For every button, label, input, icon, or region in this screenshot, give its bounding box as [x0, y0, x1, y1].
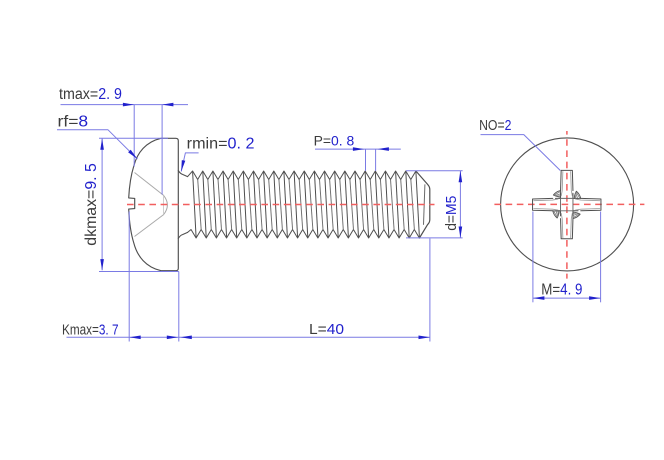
dimension M=4.9 — [532, 212, 534, 303]
screw head outline (side view) — [129, 138, 179, 270]
recess center square — [561, 198, 573, 210]
dimension line Kmax / L — [67, 336, 430, 338]
recess cone upper flank line — [135, 173, 164, 196]
extension line head left (Kmax) — [128, 212, 130, 342]
thread crest zigzag top — [188, 171, 416, 180]
dimension tmax=2.9 — [61, 104, 189, 106]
phillips recess cross — [553, 170, 573, 198]
leader NO=2 — [481, 135, 561, 171]
svg-text:P=0. 8: P=0. 8 — [314, 132, 355, 148]
dimension Kmax=3.7 arrows — [129, 336, 140, 340]
extension line screw tip — [429, 239, 431, 342]
end view vertical centerline — [566, 131, 568, 279]
dimension P=0.8 — [315, 148, 401, 150]
dimension dkmax=9.5 — [101, 139, 103, 271]
recess cone tip lens — [164, 195, 168, 214]
neck fillet bottom — [178, 232, 187, 238]
leader rf=8 — [57, 130, 137, 159]
dimension d=M5 — [406, 170, 463, 172]
svg-text:tmax=2. 9: tmax=2. 9 — [59, 86, 122, 103]
svg-text:d=M5: d=M5 — [444, 196, 460, 231]
svg-text:L=40: L=40 — [309, 321, 344, 338]
svg-text:NO=2: NO=2 — [479, 117, 511, 134]
leader rmin=0.2 — [181, 153, 198, 172]
side view centerline (red dashed) — [127, 204, 435, 206]
extension line head face — [178, 272, 180, 342]
svg-text:Kmax=3. 7: Kmax=3. 7 — [62, 322, 119, 339]
svg-text:rf=8: rf=8 — [58, 113, 89, 130]
neck fillet top (rmin) — [178, 171, 187, 177]
recess cone lower flank line — [135, 215, 164, 237]
svg-text:rmin=0. 2: rmin=0. 2 — [187, 136, 255, 153]
screw tip chamfer and end face — [416, 171, 430, 238]
thread flank lines — [193, 172, 197, 238]
svg-text:dkmax=9. 5: dkmax=9. 5 — [83, 163, 100, 246]
head circle (end view) — [501, 138, 634, 271]
thread crest zigzag bottom — [188, 230, 420, 239]
svg-text:M=4. 9: M=4. 9 — [541, 282, 582, 299]
dimension L=40 arrows — [181, 336, 192, 340]
end view horizontal centerline — [490, 203, 645, 205]
